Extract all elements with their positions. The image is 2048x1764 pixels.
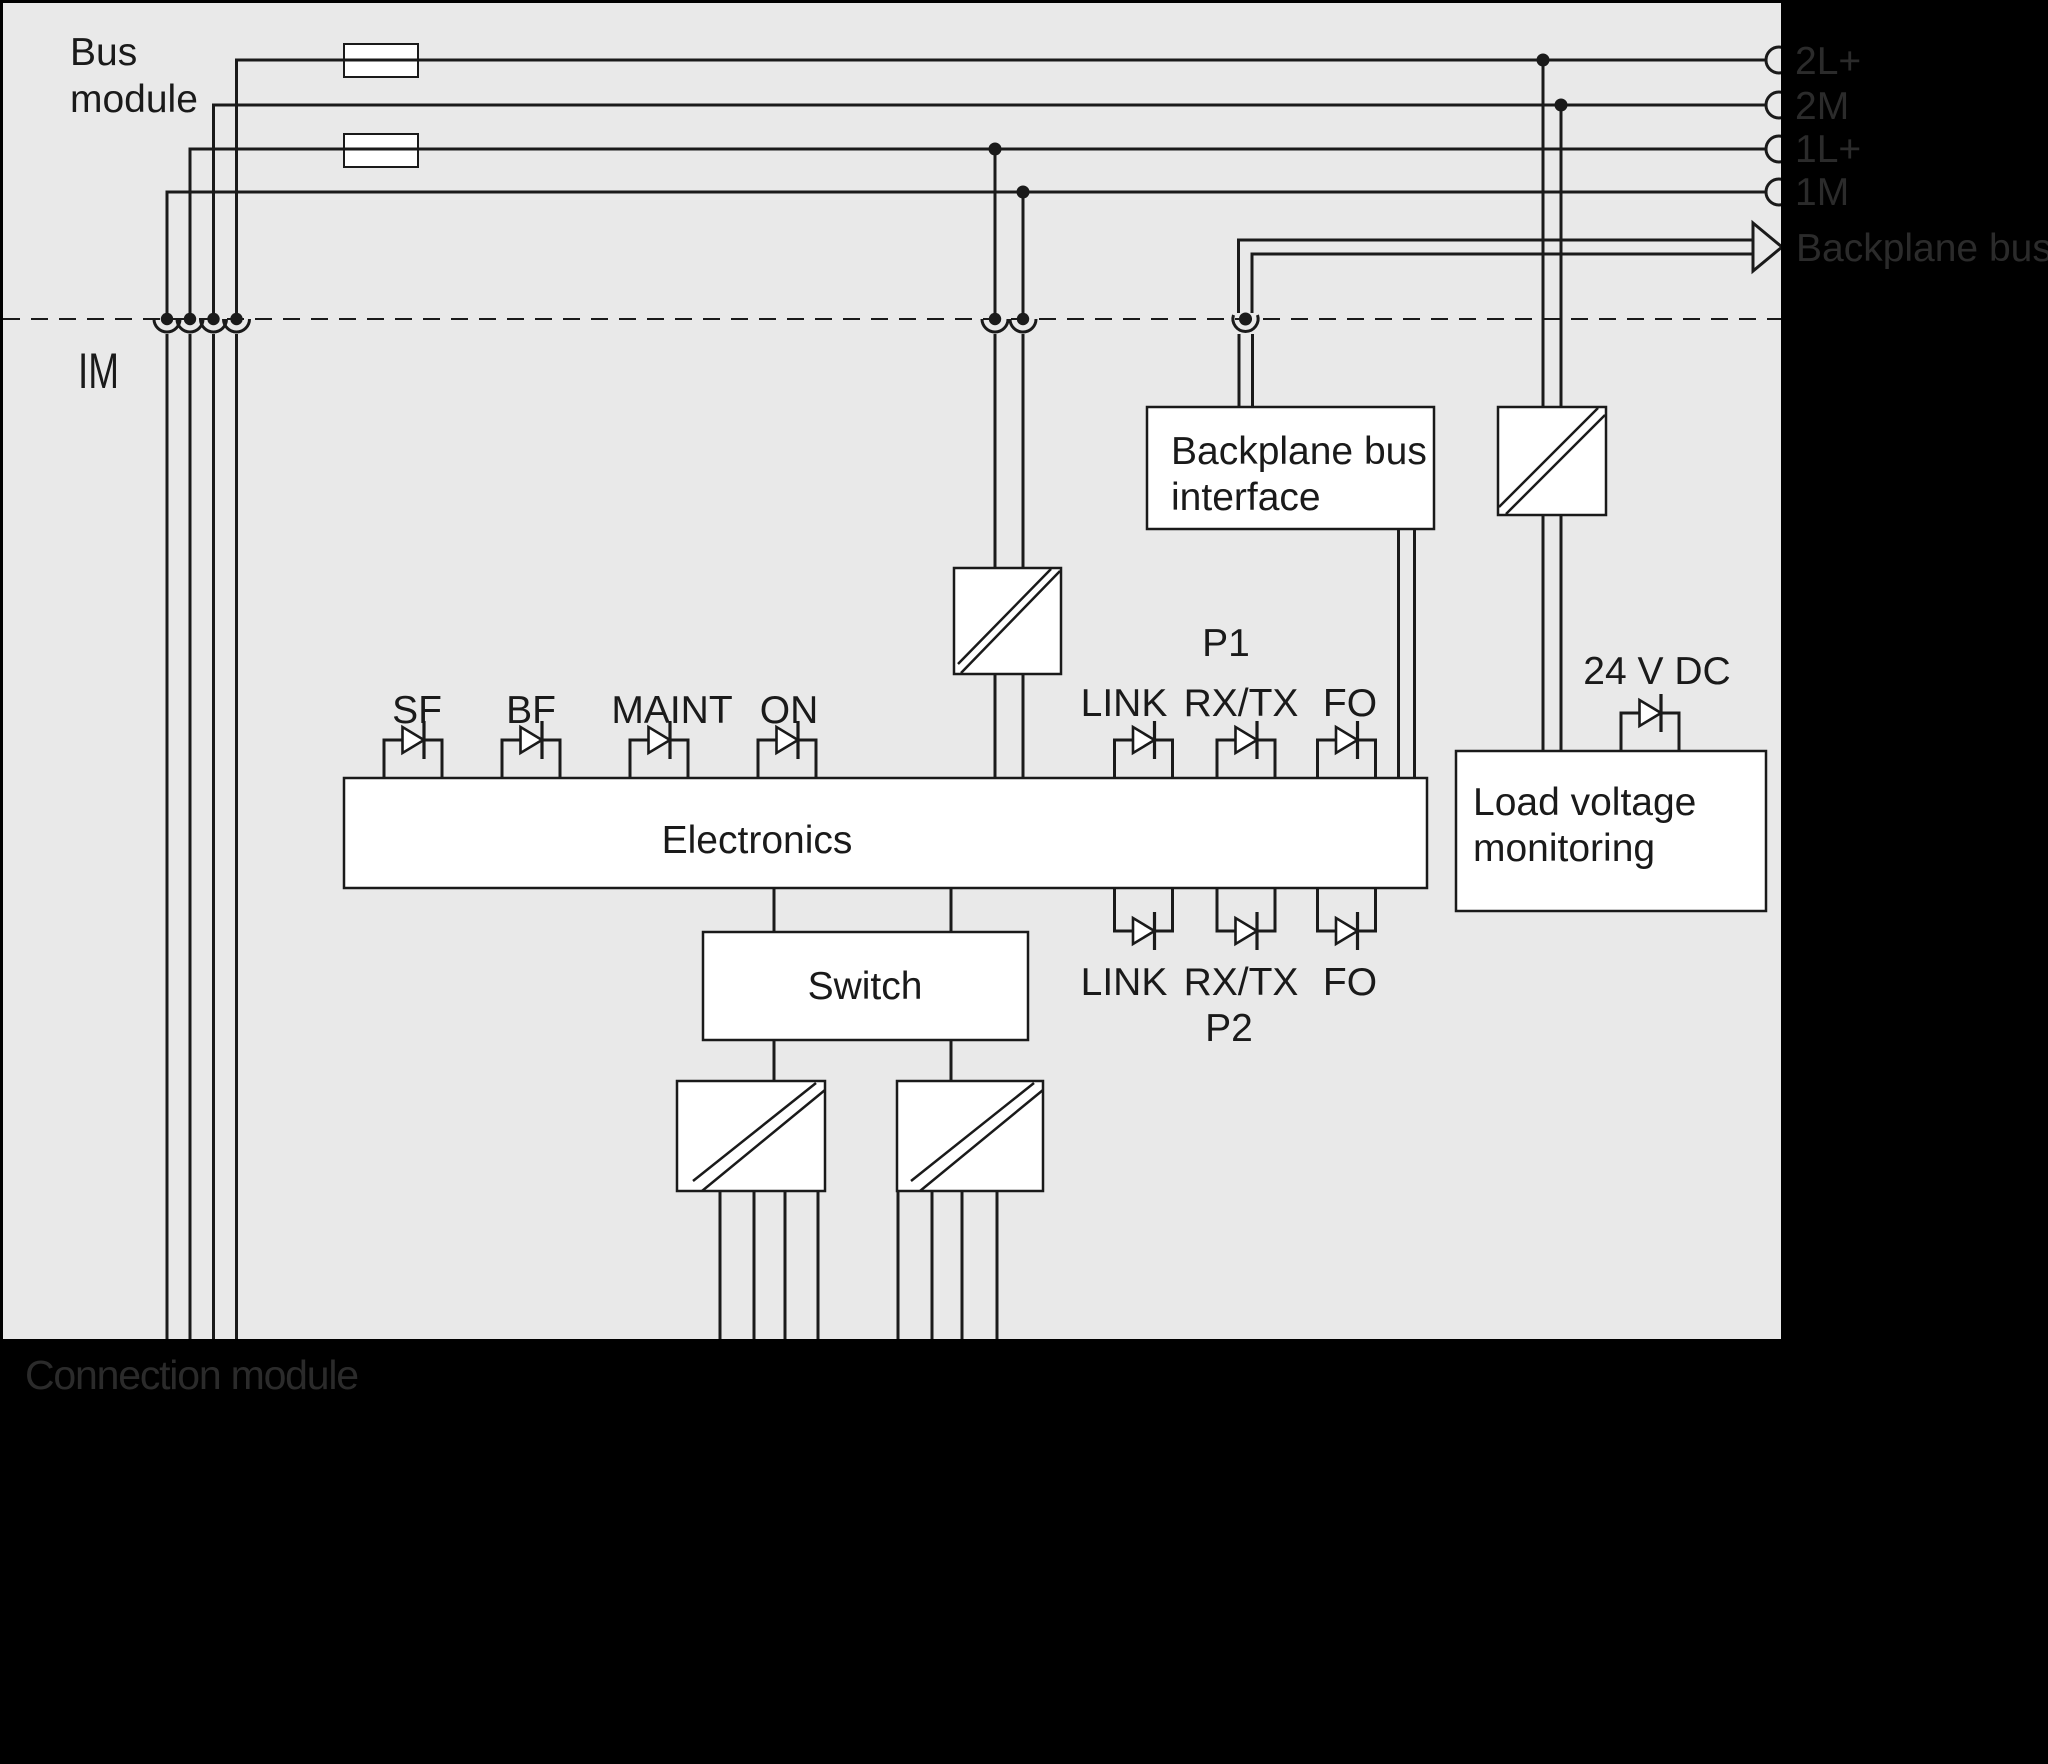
wire 1L+ rail <box>190 149 1767 319</box>
backplane bus wire A lower <box>1238 334 1241 407</box>
Load voltage monitoring box <box>1456 751 1766 911</box>
svg-text:Backplane bus: Backplane bus <box>1796 227 2048 270</box>
LED 24 V DC <box>1621 694 1679 751</box>
svg-text:1M: 1M <box>1795 171 1849 214</box>
junction on 2M rail <box>1555 99 1568 112</box>
svg-text:Bus: Bus <box>70 31 137 74</box>
LED P2 FO <box>1318 889 1376 950</box>
wire 1L+ to connection module <box>189 334 192 1339</box>
wire T2 out 3 <box>961 1191 964 1339</box>
connector pin 2L+ <box>224 313 250 332</box>
wire converter U1 out A <box>994 674 997 778</box>
wire electronics to switch A <box>773 888 776 932</box>
wire 1M rail <box>167 192 1767 319</box>
wire 1M tap upper <box>1022 192 1025 313</box>
wire T2 out 2 <box>931 1191 934 1339</box>
svg-text:LINK: LINK <box>1081 682 1168 725</box>
svg-text:RX/TX: RX/TX <box>1184 682 1299 725</box>
svg-text:MAINT: MAINT <box>611 689 732 732</box>
wire T1 out 4 <box>817 1191 820 1339</box>
wire electronics to switch B <box>950 888 953 932</box>
svg-text:interface: interface <box>1171 476 1321 519</box>
IM module body <box>3 3 1781 1339</box>
DC converter U1 (logic supply) <box>954 568 1061 674</box>
wire T2 out 1 <box>897 1191 900 1339</box>
wire switch to transformer P1 <box>773 1040 776 1081</box>
svg-text:RX/TX: RX/TX <box>1184 961 1299 1004</box>
DC converter U2 (load supply) <box>1498 407 1606 515</box>
backplane bus arrowhead <box>1753 223 1782 271</box>
connector pin 1M feed <box>1010 313 1036 332</box>
wire converter U2 out A <box>1542 515 1545 751</box>
LED ON <box>758 721 816 778</box>
wire interface to electronics B <box>1413 529 1416 778</box>
LED MAINT <box>630 721 688 778</box>
LED BF <box>502 721 560 778</box>
LED P1 RX/TX <box>1217 721 1275 778</box>
Backplane bus interface box <box>1147 407 1434 529</box>
backplane bus wire B lower <box>1251 334 1254 407</box>
wire 2M to connection module <box>212 334 215 1339</box>
bus module / IM separation line <box>3 318 1781 320</box>
svg-text:FO: FO <box>1323 682 1377 725</box>
fuse F2 on 1L+ <box>344 134 418 167</box>
svg-text:P2: P2 <box>1205 1007 1253 1050</box>
svg-text:Electronics: Electronics <box>662 819 853 862</box>
svg-text:FO: FO <box>1323 961 1377 1004</box>
LED SF <box>384 721 442 778</box>
svg-text:Connection module: Connection module <box>25 1352 358 1398</box>
backplane bus wire A <box>1239 240 1754 313</box>
connector pin 2M <box>201 313 227 332</box>
transformer T2 (port P2) <box>897 1081 1043 1191</box>
junction on 1L+ rail <box>989 143 1002 156</box>
wire T1 out 3 <box>784 1191 787 1339</box>
Electronics box <box>344 778 1427 888</box>
wire 2M rail <box>214 105 1768 319</box>
svg-text:Backplane bus: Backplane bus <box>1171 430 1427 473</box>
terminal 2M <box>1766 92 1792 118</box>
connector pin 1L+ feed <box>982 313 1008 332</box>
connector pin 1M <box>154 313 180 332</box>
svg-text:24 V DC: 24 V DC <box>1583 650 1730 693</box>
wire switch to transformer P2 <box>950 1040 953 1081</box>
svg-text:LINK: LINK <box>1081 961 1168 1004</box>
LED P1 LINK <box>1115 721 1173 778</box>
junction on 1M rail <box>1017 186 1030 199</box>
wire T1 out 2 <box>753 1191 756 1339</box>
Switch box <box>703 932 1028 1040</box>
svg-text:ON: ON <box>760 689 819 732</box>
svg-text:Load voltage: Load voltage <box>1473 781 1696 824</box>
wire 2L+ tap to converter <box>1542 60 1545 407</box>
LED P2 LINK <box>1115 889 1173 950</box>
wire 2L+ rail <box>237 60 1768 319</box>
svg-text:IM: IM <box>78 343 119 399</box>
wire 1L+ tap lower <box>994 334 997 568</box>
wire 1M to connection module <box>166 334 169 1339</box>
svg-text:monitoring: monitoring <box>1473 827 1655 870</box>
wire 1M tap lower <box>1022 334 1025 568</box>
fuse F1 on 2L+ <box>344 44 418 77</box>
svg-text:P1: P1 <box>1202 622 1250 665</box>
wire interface to electronics A <box>1397 529 1400 778</box>
wire 2M tap to converter <box>1560 105 1563 407</box>
wire converter U1 out B <box>1022 674 1025 778</box>
svg-text:2L+: 2L+ <box>1795 40 1861 83</box>
connector pin 1L+ <box>177 313 203 332</box>
svg-text:Switch: Switch <box>808 965 923 1008</box>
terminal 1L+ <box>1766 136 1792 162</box>
svg-text:BF: BF <box>506 689 556 732</box>
terminal 1M <box>1766 179 1792 205</box>
connector pin backplane bus <box>1233 313 1258 332</box>
junction on 2L+ rail <box>1537 54 1550 67</box>
LED P1 FO <box>1318 721 1376 778</box>
backplane bus wire B <box>1252 254 1753 313</box>
wire 1L+ tap upper <box>994 149 997 313</box>
terminal 2L+ <box>1766 47 1792 73</box>
wire T1 out 1 <box>719 1191 722 1339</box>
wire 2L+ to connection module <box>235 334 238 1339</box>
svg-text:2M: 2M <box>1795 85 1849 128</box>
svg-text:SF: SF <box>392 689 442 732</box>
wire converter U2 out B <box>1560 515 1563 751</box>
svg-text:module: module <box>70 78 198 121</box>
wire T2 out 4 <box>996 1191 999 1339</box>
svg-text:1L+: 1L+ <box>1795 128 1861 171</box>
transformer T1 (port P1) <box>677 1081 825 1191</box>
LED P2 RX/TX <box>1217 889 1275 950</box>
